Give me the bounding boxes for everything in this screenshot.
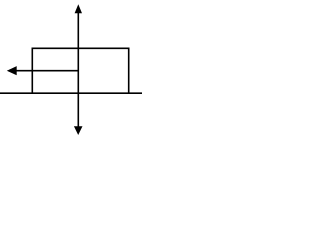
left arrow (horizontal line head) <box>7 66 17 75</box>
wire horizontal mid line <box>16 70 79 72</box>
down arrow (vertical axis head, bottom) <box>74 126 83 135</box>
block rectangle (open bottom, sits on ground line) <box>32 48 128 93</box>
ground line (full width surface) <box>0 92 142 94</box>
wire vertical axis <box>77 12 79 127</box>
up arrow (vertical axis head, top) <box>75 4 82 13</box>
